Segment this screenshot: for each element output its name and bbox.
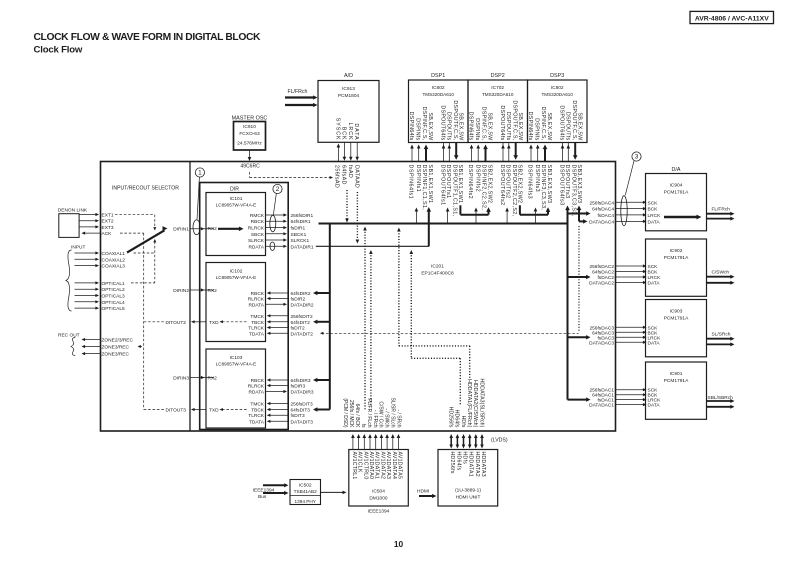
svg-text:BCK: BCK (648, 207, 659, 213)
svg-text:DSP2: DSP2 (491, 73, 505, 79)
svg-text:SB,EX,SW: SB,EX,SW (517, 112, 523, 141)
wire input OPTICAL3 (75, 295, 97, 297)
svg-text:RMCK: RMCK (250, 213, 265, 219)
svg-text:DSPINF2,C2,S2,: DSPINF2,C2,S2, (480, 165, 486, 211)
wire LRCK from A/D (350, 142, 352, 158)
wire DATADAC4 vertical thick (578, 209, 580, 221)
svg-text:HDDATA2(C/SWch): HDDATA2(C/SWch) (472, 380, 478, 428)
svg-text:SB,EX,SW: SB,EX,SW (576, 112, 582, 141)
svg-text:LRCK: LRCK (648, 213, 662, 219)
svg-text:24.576MHz: 24.576MHz (237, 141, 262, 147)
wire BCK from A/D (343, 142, 345, 158)
wire dashed 49C6RC distribution (249, 172, 251, 178)
waveform callout 2 (273, 184, 282, 193)
wires HDMI LVDS into HDMI unit (450, 437, 452, 445)
svg-text:TMS320DA610: TMS320DA610 (422, 92, 454, 97)
svg-text:DSPIN64fs: DSPIN64fs (468, 112, 474, 141)
svg-text:LC89057W-VF4A-E: LC89057W-VF4A-E (216, 275, 257, 280)
svg-text:DSPINfs: DSPINfs (415, 118, 421, 140)
svg-text:DSPOUTfs3: DSPOUTfs3 (564, 165, 570, 199)
svg-text:OPTICAL4: OPTICAL4 (102, 300, 126, 306)
wire dotted DAC data return (578, 226, 580, 331)
svg-text:RX2: RX2 (208, 376, 218, 382)
svg-text:DATA: DATA (648, 219, 661, 225)
wire input OPTICAL1 (75, 282, 97, 284)
svg-text:- / SWch: - / SWch (384, 408, 390, 427)
svg-text:Bus: Bus (258, 494, 267, 500)
model label box AVR-4806 / AVC-A11XV (690, 11, 774, 23)
svg-text:RBCK: RBCK (251, 219, 265, 225)
svg-text:IC101: IC101 (230, 196, 243, 202)
svg-text:TMCK: TMCK (250, 402, 264, 408)
svg-text:64fsDAC4: 64fsDAC4 (592, 207, 614, 213)
svg-text:RBCK: RBCK (251, 378, 265, 384)
IEEE1394 PHY IC502 TSB41AB2 (290, 480, 321, 505)
svg-text:SB1,EX1,SW1: SB1,EX1,SW1 (457, 165, 463, 204)
wire dashed DITOUT3 to recout (144, 409, 165, 411)
svg-text:IC102: IC102 (230, 268, 243, 274)
wire DSP2 DSPOUT F,C,S,SB,EX,SW stub thick (515, 143, 517, 157)
wire DSP3 DSPIN64fs stub (530, 147, 532, 162)
svg-text:DSPOUTF,C.S,: DSPOUTF,C.S, (511, 100, 517, 140)
wire DSP1 DSPIN64fs stub (411, 147, 413, 162)
svg-text:HDfs: HDfs (460, 416, 466, 428)
svg-text:HDDATA3: HDDATA3 (480, 452, 486, 477)
svg-text:INPUT: INPUT (71, 244, 85, 250)
D/A converter IC902 PCM1791A (646, 239, 707, 296)
svg-text:(PCM / DSD): (PCM / DSD) (342, 398, 348, 428)
svg-text:DSPIN64fs1: DSPIN64fs1 (408, 165, 414, 200)
wire recout ZONE3/REC (84, 353, 101, 355)
svg-text:RBCK: RBCK (251, 291, 265, 297)
svg-text:HDDATA3(SL/SRch): HDDATA3(SL/SRch) (478, 379, 484, 428)
svg-text:DSPIN64fs: DSPIN64fs (408, 112, 414, 141)
svg-text:IC602: IC602 (432, 85, 445, 91)
wire master osc to digital block (249, 150, 251, 160)
svg-text:AV1DATA0: AV1DATA0 (368, 452, 374, 480)
svg-text:64fsDIR3: 64fsDIR3 (291, 378, 311, 384)
svg-text:fsAD: fsAD (347, 165, 353, 178)
svg-text:IEEE1394: IEEE1394 (368, 509, 390, 515)
svg-text:IC910: IC910 (243, 124, 256, 130)
bracket DSP2-out to DSP3-in (535, 210, 537, 224)
wire 64fsDIT3 arrow (316, 409, 330, 411)
svg-text:SBL/SBRch: SBL/SBRch (708, 395, 734, 401)
svg-text:DSPOUTfs1: DSPOUTfs1 (445, 165, 451, 199)
svg-text:RLRCK: RLRCK (248, 384, 265, 390)
svg-text:256fs / MCK: 256fs / MCK (348, 400, 354, 428)
svg-text:DATADIT2: DATADIT2 (291, 331, 314, 337)
svg-text:RDATA: RDATA (248, 302, 264, 308)
svg-text:TBCK: TBCK (251, 320, 265, 326)
svg-text:CLOCK FLOW & WAVE FORM IN DIGI: CLOCK FLOW & WAVE FORM IN DIGITAL BLOCK (34, 32, 262, 43)
IEEE1394 link controller IC504 DM1000 (349, 450, 409, 507)
wire DSP1 DSPOUT F,C,S,SB,EX,SW stub thick (455, 143, 457, 157)
svg-text:DSPOUT64fs: DSPOUT64fs (440, 105, 446, 140)
svg-text:DATADIR2: DATADIR2 (291, 302, 314, 308)
svg-text:DITOUT2: DITOUT2 (166, 320, 187, 326)
svg-text:DSPOUTF,C.S,: DSPOUTF,C.S, (571, 100, 577, 140)
wire IC502 to DM1000 (321, 491, 344, 493)
svg-text:64fsDIR1: 64fsDIR1 (291, 219, 311, 225)
svg-text:DATAAD: DATAAD (353, 165, 359, 188)
svg-text:TSB41AB2: TSB41AB2 (294, 489, 318, 494)
svg-text:BCK: BCK (648, 270, 659, 276)
svg-text:SB,EX,SW: SB,EX,SW (546, 112, 552, 141)
svg-text:EP1C4F400C8: EP1C4F400C8 (421, 271, 454, 277)
svg-text:DSPOUT64fs: DSPOUT64fs (559, 105, 565, 140)
svg-text:INPUT/RECOUT SELECTOR: INPUT/RECOUT SELECTOR (112, 186, 179, 192)
svg-text:C/SW / Cch: C/SW / Cch (378, 401, 384, 427)
svg-text:DATADIR1: DATADIR1 (291, 244, 314, 250)
svg-text:DSPOUTfs: DSPOUTfs (445, 112, 451, 141)
svg-text:DSPIN64fs2: DSPIN64fs2 (467, 165, 473, 200)
svg-text:64fsDIT2: 64fsDIT2 (291, 320, 311, 326)
wire fsDAC2 feed (568, 276, 588, 278)
wire input COAXIAL2 (75, 258, 97, 260)
svg-text:SB,EX,SW: SB,EX,SW (427, 112, 433, 141)
D/A converter IC903 PCM1791A (646, 300, 707, 357)
svg-text:RLRCK: RLRCK (248, 297, 265, 303)
svg-text:SB3,EX3,SW3: SB3,EX3,SW3 (546, 165, 552, 204)
svg-text:PCM1804: PCM1804 (338, 93, 360, 99)
svg-text:EXT2: EXT2 (102, 219, 114, 225)
svg-text:64fsAD: 64fsAD (340, 165, 346, 185)
outer digital-block boundary box IC201 region (101, 162, 616, 432)
selector route selected diagonal (127, 230, 165, 252)
svg-text:fsDIR2: fsDIR2 (291, 297, 306, 303)
svg-text:SL/SR / SLch: SL/SR / SLch (390, 397, 396, 427)
svg-text:OPTICAL2: OPTICAL2 (102, 287, 126, 293)
svg-text:HDfs: HDfs (462, 452, 468, 465)
svg-text:A/D: A/D (344, 73, 353, 79)
svg-text:SLRCK: SLRCK (248, 238, 265, 244)
svg-text:SL/SRch: SL/SRch (712, 331, 731, 337)
wire DSP1 DSPIN F,C,S,SB,EX,SW stub thick (425, 148, 427, 162)
svg-text:DSPOUT64fs2: DSPOUT64fs2 (499, 165, 505, 206)
svg-text:fsDIT2: fsDIT2 (291, 326, 305, 332)
svg-text:FL/FRch: FL/FRch (288, 89, 308, 95)
svg-text:SLRCK1: SLRCK1 (291, 238, 310, 244)
svg-text:DIR: DIR (230, 187, 239, 193)
svg-text:256fsDIT3: 256fsDIT3 (291, 402, 313, 408)
data bus line DATADIR1 horizontal (316, 245, 429, 247)
wire 64fsDIR3 arrow (316, 379, 330, 381)
svg-text:LRCK: LRCK (347, 123, 353, 141)
wire EXT3 input (79, 226, 96, 228)
svg-text:OPTICAL1: OPTICAL1 (102, 281, 126, 287)
svg-text:PCM1791A: PCM1791A (664, 378, 689, 384)
bracket DSP1-out to DSP2-in (475, 210, 477, 224)
svg-text:DIRIN1: DIRIN1 (173, 226, 189, 232)
wires AV signals into DM1000 (352, 437, 354, 450)
wire DATA from A/D (356, 142, 358, 158)
svg-text:COAXIAL2: COAXIAL2 (102, 257, 126, 263)
svg-text:DSPOUT64fs3: DSPOUT64fs3 (558, 165, 564, 206)
wire dashed DITOUT2 to recout (144, 321, 165, 323)
svg-text:EXT1: EXT1 (102, 213, 114, 219)
svg-text:64fsDIT3: 64fsDIT3 (291, 408, 311, 414)
D/A converter IC904 PCM1791A (646, 174, 707, 231)
DIR block container (200, 183, 289, 430)
svg-text:SCK: SCK (648, 264, 659, 270)
wire DSP1 SB1 thick from data bus (428, 211, 430, 246)
svg-text:HDMI: HDMI (417, 489, 429, 495)
wire 64fs distribution vertical thick (329, 224, 331, 410)
svg-text:DATA: DATA (353, 123, 359, 140)
wire DSP2 DSPOUTfs2 arrow from bus (506, 210, 508, 224)
svg-text:IC504: IC504 (372, 489, 385, 495)
svg-text:64fs / BCK: 64fs / BCK (354, 404, 360, 429)
wire DSP3 DSPOUT64fs stub (562, 143, 564, 148)
wire DSP2 DSPIN64fs stub (471, 147, 473, 162)
svg-text:SBCK: SBCK (251, 232, 265, 238)
svg-text:DSPINF,C.S,: DSPINF,C.S, (421, 107, 427, 141)
svg-text:SYSCK: SYSCK (334, 118, 340, 141)
svg-text:AV1DATA5: AV1DATA5 (397, 452, 403, 480)
svg-text:DSPINF1,C1,S1,: DSPINF1,C1,S1, (421, 165, 427, 211)
svg-text:fsDIR1: fsDIR1 (291, 226, 306, 232)
svg-text:PCM1791A: PCM1791A (664, 190, 689, 196)
svg-text:256fsDIT2: 256fsDIT2 (291, 314, 313, 320)
svg-text:DATA: DATA (648, 340, 661, 346)
svg-text:DSPOUTF2,C2,S2,: DSPOUTF2,C2,S2, (511, 165, 517, 217)
svg-text:DATADIR3: DATADIR3 (291, 390, 314, 396)
wire dotted FL/FR to DM1000 (370, 253, 372, 407)
svg-text:HD256fs: HD256fs (448, 407, 454, 428)
svg-text:FCXO-63: FCXO-63 (239, 131, 260, 137)
svg-text:DATADAC2: DATADAC2 (589, 281, 614, 287)
svg-text:DIRIN2: DIRIN2 (173, 288, 189, 294)
svg-text:DATA: DATA (648, 403, 661, 409)
wire DSP1 DSPINfs1 arrow from bus (415, 210, 417, 224)
svg-text:DSPINfs: DSPINfs (474, 118, 480, 140)
svg-text:OPTICAL5: OPTICAL5 (102, 306, 126, 312)
svg-text:EXT3: EXT3 (102, 225, 114, 231)
wire DSP2 DSPINfs stub (477, 147, 479, 162)
selector dashed ACK/REC route (120, 232, 144, 234)
svg-text:LRCK: LRCK (648, 275, 662, 281)
wire DSP1 DSPOUT64fs stub (443, 143, 445, 148)
svg-text:DSPOUTF3,C3,S3,: DSPOUTF3,C3,S3, (571, 165, 577, 217)
svg-text:SB2,EX2,SW2: SB2,EX2,SW2 (517, 165, 523, 204)
svg-text:COAXIAL1: COAXIAL1 (102, 251, 126, 257)
wire input COAXIAL3 (75, 265, 97, 267)
wire DSP3 DSPIN F,C,S,SB,EX,SW stub thick (544, 148, 546, 162)
wire input OPTICAL4 (75, 301, 97, 303)
svg-text:RX2: RX2 (208, 288, 218, 294)
digital interface transceiver IC102 LC89057W-VF4A-E (206, 263, 266, 342)
svg-text:C/SWch: C/SWch (712, 269, 730, 275)
svg-text:DSPIN64fs: DSPIN64fs (527, 112, 533, 141)
wire DSP3 DSPINfs stub (537, 147, 539, 162)
svg-text:IC201: IC201 (431, 264, 444, 270)
wire dotted fs to DM1000 (364, 229, 366, 410)
svg-text:256fsAD: 256fsAD (334, 165, 340, 188)
HDMI unit 1U-3889-1 (438, 450, 498, 507)
svg-text:fsDIT3: fsDIT3 (291, 413, 305, 419)
svg-text:DSPINfs2: DSPINfs2 (475, 165, 481, 193)
svg-text:AV1CTRL1: AV1CTRL1 (351, 452, 357, 480)
wire conversion arrow inside IC904 (664, 216, 698, 218)
svg-text:HDDATA1: HDDATA1 (468, 452, 474, 477)
svg-text:256fsDIR1: 256fsDIR1 (291, 213, 314, 219)
svg-text:IC103: IC103 (230, 355, 243, 361)
svg-text:ZONE2/3/REC: ZONE2/3/REC (102, 338, 134, 344)
svg-text:TXD: TXD (209, 320, 219, 326)
D/A converter IC901 PCM1791A (646, 362, 707, 419)
svg-text:- / FRch: - / FRch (372, 410, 378, 428)
svg-text:SB,EX,SW: SB,EX,SW (457, 112, 463, 141)
svg-text:AV1DATA4: AV1DATA4 (391, 452, 397, 480)
wire dotted data bus to HDMI HDfs (410, 253, 412, 359)
svg-text:RDATA: RDATA (248, 244, 264, 250)
wire DSP1 DSPOUTfs1 arrow from bus (447, 210, 449, 224)
svg-text:AV1DATA2: AV1DATA2 (379, 452, 385, 480)
svg-text:IC702: IC702 (491, 85, 504, 91)
svg-text:AV1CLK: AV1CLK (357, 452, 363, 473)
svg-text:256fsDAC4: 256fsDAC4 (589, 200, 614, 206)
wire DSP3 DSPOUTfs stub (567, 143, 569, 148)
svg-text:SCK: SCK (648, 200, 659, 206)
clock bus line horizontal (319, 223, 568, 225)
selector dashed alternative COAXIAL/OPTICAL route (154, 242, 156, 283)
svg-text:BCK: BCK (340, 127, 346, 141)
svg-text:TLRCK: TLRCK (248, 413, 265, 419)
svg-text:fsDIR3: fsDIR3 (291, 384, 306, 390)
svg-text:DATADAC3: DATADAC3 (589, 340, 614, 346)
waveform callout 1 (195, 168, 204, 177)
svg-text:DATADAC4: DATADAC4 (589, 219, 614, 225)
svg-text:DSPOUTfs2: DSPOUTfs2 (505, 165, 511, 199)
wire ACK output (84, 232, 101, 234)
wire DSP1 DSPOUTfs stub (448, 143, 450, 148)
wire DSP3 DSPOUT F,C,S,SB,EX,SW stub thick (574, 143, 576, 157)
wire dotted DATAAD to data bus (356, 192, 358, 240)
wire DSP2 DSPOUTfs stub (508, 143, 510, 148)
svg-text:DSPOUT64fs: DSPOUT64fs (499, 105, 505, 140)
wire dotted 64fsAD to clock bus (346, 190, 348, 220)
svg-text:DSPINfs3: DSPINfs3 (534, 165, 540, 193)
svg-text:TMS320DA610: TMS320DA610 (541, 92, 573, 97)
wire recout ZONE2/3/REC (84, 339, 101, 341)
wire input OPTICAL2 (75, 288, 97, 290)
svg-text:IC902: IC902 (670, 248, 683, 254)
input/recout selector divider line (189, 162, 191, 432)
svg-text:HDDATA2: HDDATA2 (474, 452, 480, 477)
selector dashed alternative EXT1 route (115, 214, 155, 216)
svg-text:HDMI UNIT: HDMI UNIT (456, 495, 481, 501)
svg-text:1: 1 (198, 170, 202, 177)
wire SYSCK into A/D (337, 146, 339, 162)
svg-text:TBCK: TBCK (251, 408, 265, 414)
svg-text:AVR-4806 / AVC-A11XV: AVR-4806 / AVC-A11XV (695, 15, 769, 22)
svg-text:DATADAC1: DATADAC1 (589, 403, 614, 409)
wire DSP2 DSPOUT64fs stub (502, 143, 504, 148)
svg-text:2: 2 (276, 186, 280, 193)
svg-text:HD64fs: HD64fs (454, 410, 460, 428)
wire DSP2 DSPIN F,C,S,SB,EX,SW stub thick (485, 148, 487, 162)
digital interface receiver IC101 LC89057W-VF4A-E (206, 193, 266, 256)
svg-text:DSPOUT64fs1: DSPOUT64fs1 (439, 165, 445, 206)
svg-text:DSP3: DSP3 (550, 73, 564, 79)
svg-text:DIRIN3: DIRIN3 (173, 376, 189, 382)
wire 64fsDIT2 arrow (316, 321, 330, 323)
svg-text:SB3,EX3,SW3: SB3,EX3,SW3 (576, 165, 582, 204)
svg-text:HD256fs: HD256fs (449, 452, 455, 474)
waveform callout 3 (632, 152, 641, 161)
svg-text:ZONE3/REC: ZONE3/REC (102, 352, 130, 358)
svg-text:AV1CTRL0: AV1CTRL0 (362, 452, 368, 480)
svg-text:DSP1: DSP1 (431, 73, 445, 79)
svg-text:(LVDS): (LVDS) (491, 438, 508, 444)
svg-text:1394 PHY: 1394 PHY (295, 499, 317, 504)
svg-text:D/A: D/A (672, 167, 681, 173)
svg-text:OPTICAL3: OPTICAL3 (102, 294, 126, 300)
svg-text:LC89057W-VF4A-E: LC89057W-VF4A-E (216, 362, 257, 367)
wire fsDAC4 feed (568, 213, 588, 215)
svg-text:DSPINF3,C3,S3,: DSPINF3,C3,S3, (540, 165, 546, 211)
wire TXD dashed inside IC103 (222, 409, 247, 411)
svg-text:FL/FRch: FL/FRch (712, 207, 731, 213)
svg-text:IC901: IC901 (670, 371, 683, 377)
wire dotted SR bus to HDMI HDDATA1 (398, 231, 400, 346)
svg-text:IC502: IC502 (299, 483, 312, 489)
svg-text:AV1DATA3: AV1DATA3 (385, 452, 391, 480)
wire fsDAC1 feed (568, 399, 588, 401)
svg-text:HDDATA1(FL/FRch): HDDATA1(FL/FRch) (466, 379, 472, 428)
svg-text:REC OUT: REC OUT (58, 332, 80, 338)
svg-text:IC802: IC802 (551, 85, 564, 91)
svg-text:(1U-3889-1): (1U-3889-1) (455, 488, 481, 494)
svg-text:DM1000: DM1000 (369, 496, 387, 502)
svg-text:IC913: IC913 (342, 86, 355, 92)
wire EXT2 input (79, 220, 96, 222)
svg-text:DSPINfs1: DSPINfs1 (415, 165, 421, 193)
svg-text:TLRCK: TLRCK (248, 326, 265, 332)
svg-text:COAXIAL3: COAXIAL3 (102, 264, 126, 270)
svg-text:SB1,EX1,SW1: SB1,EX1,SW1 (427, 165, 433, 204)
svg-text:RLRCK: RLRCK (248, 226, 265, 232)
svg-text:PCM1791A: PCM1791A (664, 316, 689, 322)
svg-text:DSPOUTfs: DSPOUTfs (564, 112, 570, 141)
svg-text:TXD: TXD (209, 408, 219, 414)
svg-text:AV1DATA1: AV1DATA1 (374, 452, 380, 480)
digital interface transceiver IC103 LC89057W-VF4A-E (206, 349, 266, 428)
wire fsDAC3 feed (568, 336, 588, 338)
svg-text:TDATA: TDATA (249, 419, 265, 425)
svg-text:SB,EX,SW: SB,EX,SW (487, 112, 493, 141)
svg-text:PCM1791A: PCM1791A (664, 255, 689, 261)
svg-text:DSPINF,C.S,: DSPINF,C.S, (481, 107, 487, 141)
wire 64fsDIR2 arrow (316, 292, 330, 294)
wire input OPTICAL5 (75, 307, 97, 309)
svg-text:LC89057W-VF4A-E: LC89057W-VF4A-E (216, 203, 257, 208)
svg-text:3: 3 (635, 154, 639, 161)
wire EXT1 input (79, 214, 96, 216)
svg-text:ZONE3/REC: ZONE3/REC (102, 345, 130, 351)
svg-text:- / SRch: - / SRch (396, 409, 402, 427)
svg-text:RDATA: RDATA (248, 390, 264, 396)
svg-text:ACK: ACK (102, 231, 113, 237)
svg-text:fsDAC4: fsDAC4 (597, 213, 614, 219)
svg-text:DITOUT3: DITOUT3 (166, 408, 187, 414)
svg-text:DATA: DATA (648, 281, 661, 287)
svg-text:64fsDAC2: 64fsDAC2 (592, 270, 614, 276)
svg-text:IC904: IC904 (670, 183, 683, 189)
svg-text:HD64fs: HD64fs (455, 452, 461, 471)
svg-text:DENON LINK: DENON LINK (58, 208, 88, 214)
